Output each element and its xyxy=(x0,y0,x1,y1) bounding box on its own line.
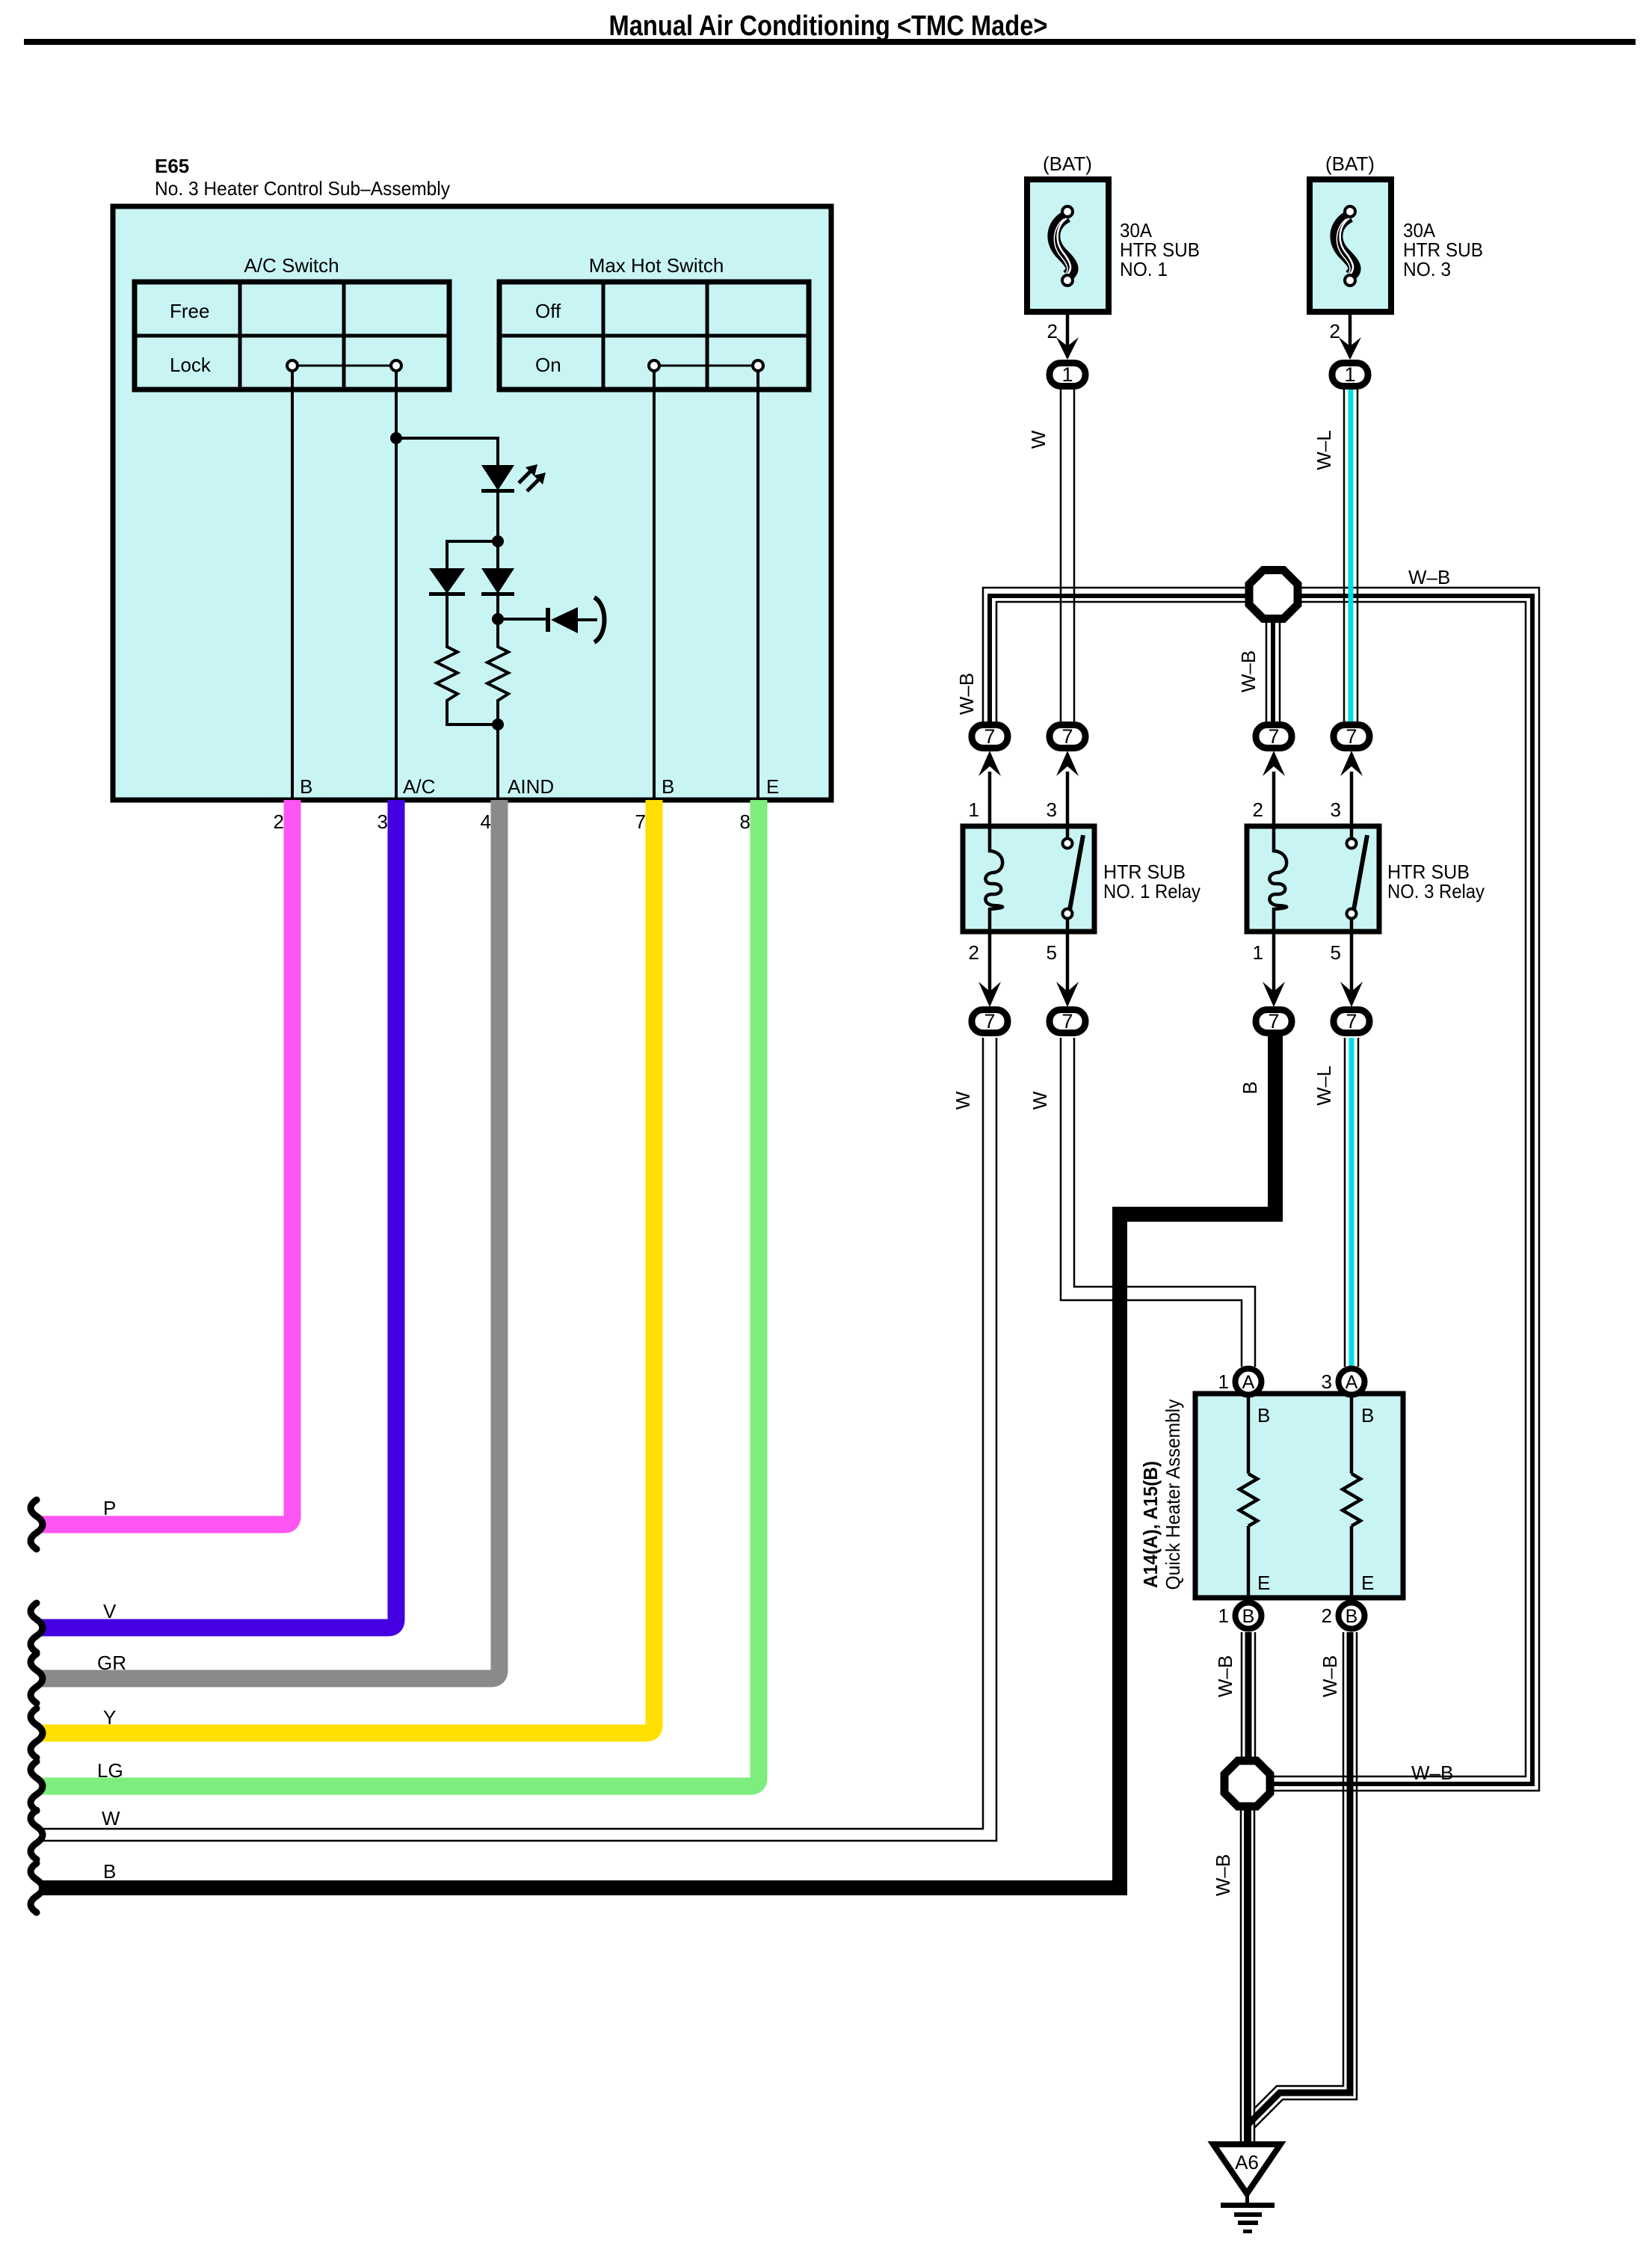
wire W-B heater 2B to ground run xyxy=(1249,1632,1357,2128)
wire Max Hot to pin 7 xyxy=(653,371,656,800)
Max Hot Switch table xyxy=(499,282,809,390)
svg-text:1: 1 xyxy=(1061,363,1073,386)
relay U1 contact xyxy=(1063,826,1084,932)
svg-text:1: 1 xyxy=(1253,941,1263,964)
svg-text:B: B xyxy=(1239,1081,1261,1094)
arrow into connector 1 xyxy=(1339,337,1361,360)
junction dot above resistor xyxy=(492,613,504,625)
svg-text:B: B xyxy=(1257,1404,1270,1427)
wire connector to relay2 pin3 xyxy=(1350,772,1354,826)
fuse HTR SUB NO.3 box xyxy=(1310,179,1391,312)
wire relay2 pin5 to connector xyxy=(1350,932,1354,1002)
ground point A6 xyxy=(1213,2144,1280,2194)
svg-text:E: E xyxy=(1361,1572,1374,1594)
svg-text:A/C: A/C xyxy=(403,775,435,798)
svg-text:W–B: W–B xyxy=(1212,1854,1234,1896)
continuation curl Y xyxy=(31,1708,43,1758)
svg-text:P: P xyxy=(103,1497,116,1519)
wire relay1 pin2 to connector xyxy=(988,932,992,1002)
svg-text:7: 7 xyxy=(1268,725,1279,748)
svg-text:(BAT): (BAT) xyxy=(1325,153,1375,175)
heater pin 1A circle xyxy=(1236,1369,1262,1395)
connector oval 1 (fuse F2) xyxy=(1332,363,1368,387)
branch wire to diode D4 xyxy=(498,618,550,621)
continuation curl V xyxy=(31,1603,43,1652)
resistor R2 xyxy=(487,619,508,800)
svg-text:A6: A6 xyxy=(1235,2151,1259,2173)
wire W-B octagon J2 to ground A6 xyxy=(1241,1810,1254,2144)
svg-text:3: 3 xyxy=(1047,799,1057,821)
heater pin 3A circle xyxy=(1339,1369,1365,1395)
svg-text:No. 3 Heater Control Sub–Assem: No. 3 Heater Control Sub–Assembly xyxy=(155,177,450,200)
svg-text:1: 1 xyxy=(1218,1370,1229,1393)
wire to diode D3 xyxy=(496,541,499,568)
diode D2 xyxy=(429,568,465,596)
connector oval 7 (below relay2 pin1) xyxy=(1256,982,1292,1033)
svg-text:W–L: W–L xyxy=(1313,1065,1335,1105)
net W-B octagon1 to relay2 xyxy=(1266,623,1280,722)
svg-text:7: 7 xyxy=(984,1010,995,1033)
wire Max Hot to pin 8 xyxy=(756,371,759,800)
svg-text:7: 7 xyxy=(1061,1010,1073,1033)
connector oval 7 (below relay1 pin2) xyxy=(972,982,1008,1033)
svg-text:B: B xyxy=(1346,1606,1358,1627)
relay U2 HTR SUB NO.3 box xyxy=(1247,826,1379,932)
wire relay2 pin1 to connector xyxy=(1272,932,1276,1002)
svg-text:5: 5 xyxy=(1331,941,1341,964)
wire W-B heater 1B to octagon xyxy=(1242,1632,1255,1759)
relay U2 coil xyxy=(1269,826,1286,932)
svg-text:2: 2 xyxy=(1330,320,1340,342)
svg-text:W–L: W–L xyxy=(1313,430,1335,470)
wire LG light green xyxy=(39,800,759,1786)
svg-text:3: 3 xyxy=(377,810,388,833)
connector oval 7 (relay1 pin3) xyxy=(1050,725,1085,777)
svg-text:W–B: W–B xyxy=(955,673,978,715)
svg-text:7: 7 xyxy=(1268,1010,1279,1033)
wire D3 to junction xyxy=(496,594,499,619)
svg-text:NO. 3: NO. 3 xyxy=(1403,258,1451,280)
svg-text:2: 2 xyxy=(274,810,284,833)
wire Y yellow xyxy=(39,800,654,1733)
svg-text:1: 1 xyxy=(1218,1604,1229,1627)
junction dot at resistor bottom xyxy=(492,719,504,730)
svg-text:1: 1 xyxy=(969,799,979,821)
svg-text:LG: LG xyxy=(97,1759,123,1782)
svg-text:2: 2 xyxy=(1047,320,1058,342)
svg-text:E65: E65 xyxy=(155,155,189,177)
svg-text:Manual Air Conditioning <TMC M: Manual Air Conditioning <TMC Made> xyxy=(609,10,1048,42)
heater pin 1B circle xyxy=(1236,1603,1262,1629)
svg-text:W–B: W–B xyxy=(1237,650,1260,692)
svg-text:W: W xyxy=(1027,430,1050,449)
svg-text:B: B xyxy=(103,1860,116,1883)
svg-text:NO. 1 Relay: NO. 1 Relay xyxy=(1103,880,1201,902)
svg-text:Y: Y xyxy=(103,1706,116,1729)
E65 No.3 Heater Control Sub-Assembly box xyxy=(113,206,831,800)
wire branch to diode D2 xyxy=(447,541,498,568)
connector oval 7 (relay2 pin3) xyxy=(1334,725,1369,777)
continuation curl P xyxy=(31,1500,43,1549)
svg-text:7: 7 xyxy=(984,725,995,748)
svg-text:A: A xyxy=(1346,1372,1358,1393)
connector oval 1 (fuse F1) xyxy=(1050,363,1085,387)
wire connector to relay1 pin3 xyxy=(1066,772,1070,826)
svg-text:On: On xyxy=(535,354,561,376)
connector oval 7 (relay2 pin2) xyxy=(1256,725,1292,777)
title rule xyxy=(24,39,1636,45)
LED D1 xyxy=(481,464,546,493)
wire relay1 pin5 to connector xyxy=(1066,932,1070,1002)
svg-text:2: 2 xyxy=(969,941,979,964)
svg-text:W–B: W–B xyxy=(1411,1762,1453,1784)
heater element 2 lower wire xyxy=(1350,1526,1354,1600)
wire from A/C lock to pin 2 xyxy=(291,371,294,800)
svg-text:NO. 3 Relay: NO. 3 Relay xyxy=(1387,880,1485,902)
wire connector to relay2 pin2 xyxy=(1272,772,1276,826)
fuse F2 element xyxy=(1337,206,1355,286)
continuation curl W xyxy=(31,1810,43,1859)
svg-text:B: B xyxy=(1361,1404,1374,1427)
svg-text:7: 7 xyxy=(1346,1010,1357,1033)
svg-text:A/C Switch: A/C Switch xyxy=(244,254,339,277)
A/C Switch table xyxy=(135,282,449,390)
junction octagon J1 xyxy=(1249,570,1298,619)
Max Hot switch on contacts xyxy=(649,360,763,371)
wire from A/C lock to pin 3 xyxy=(395,371,398,800)
svg-text:Free: Free xyxy=(170,300,209,322)
wire P pink xyxy=(39,800,292,1524)
connector oval 7 (below relay2 pin5) xyxy=(1334,982,1369,1033)
fuse F1 element xyxy=(1054,206,1073,286)
heater resistor 2 xyxy=(1343,1474,1360,1526)
svg-text:NO. 1: NO. 1 xyxy=(1120,258,1168,280)
svg-text:V: V xyxy=(103,1600,117,1622)
relay U1 coil xyxy=(985,826,1002,932)
svg-text:B: B xyxy=(662,775,674,798)
wire fuse F1 to connector xyxy=(1066,312,1070,357)
svg-text:4: 4 xyxy=(481,810,491,833)
junction dot below LED xyxy=(492,535,504,547)
svg-text:Max Hot Switch: Max Hot Switch xyxy=(589,254,724,277)
wire W from fuse F1 xyxy=(1061,390,1074,722)
svg-text:W–B: W–B xyxy=(1408,566,1450,588)
svg-text:5: 5 xyxy=(1047,941,1057,964)
svg-text:3: 3 xyxy=(1331,799,1341,821)
junction dot on A/C wire xyxy=(390,432,402,444)
svg-text:GR: GR xyxy=(97,1652,126,1674)
wire GR gray xyxy=(39,800,499,1679)
wire fuse F2 to connector xyxy=(1349,312,1352,357)
svg-text:7: 7 xyxy=(1346,725,1357,748)
svg-text:E: E xyxy=(1257,1572,1270,1594)
wire LED to junction xyxy=(496,490,499,541)
wire W-L relay2 pin5 to heater xyxy=(1345,1038,1358,1367)
arrow into connector 1 xyxy=(1056,337,1079,360)
wire W relay1 pin5 to heater xyxy=(1061,1038,1255,1367)
svg-text:W: W xyxy=(952,1091,974,1110)
wire branch to LED xyxy=(396,438,498,465)
quick heater assembly box xyxy=(1195,1394,1403,1598)
svg-text:7: 7 xyxy=(1061,725,1073,748)
junction octagon J2 xyxy=(1224,1761,1270,1806)
net W-B left branch xyxy=(983,588,1245,722)
heater pin 2B circle xyxy=(1339,1603,1365,1629)
svg-text:Off: Off xyxy=(535,300,561,322)
svg-text:2: 2 xyxy=(1253,799,1263,821)
svg-text:2: 2 xyxy=(1322,1604,1332,1627)
wire W-L from fuse F2 xyxy=(1344,390,1357,722)
continuation curl GR xyxy=(31,1654,43,1703)
wire B bottom run xyxy=(39,1035,1275,1888)
svg-text:W: W xyxy=(1029,1091,1051,1110)
ground symbol xyxy=(1221,2191,1275,2233)
svg-text:7: 7 xyxy=(635,810,646,833)
svg-text:8: 8 xyxy=(740,810,751,833)
svg-text:W–B: W–B xyxy=(1319,1655,1341,1697)
fuse HTR SUB NO.1 box xyxy=(1027,179,1109,312)
svg-text:W–B: W–B xyxy=(1214,1655,1236,1697)
wire V violet xyxy=(39,800,396,1628)
svg-text:A: A xyxy=(1242,1372,1255,1393)
svg-text:Lock: Lock xyxy=(170,354,212,376)
heater resistor 1 xyxy=(1239,1474,1257,1526)
relay U2 contact xyxy=(1347,826,1368,932)
wire connector to relay1 pin1 xyxy=(988,772,992,826)
diode D3 xyxy=(481,568,514,596)
wire W bottom run xyxy=(39,1038,996,1841)
svg-text:3: 3 xyxy=(1322,1370,1332,1393)
diode D4 with thermal contact xyxy=(546,597,605,642)
resistor R1 xyxy=(437,596,498,724)
connector oval 7 (relay1 pin1) xyxy=(972,725,1008,777)
svg-text:B: B xyxy=(300,775,312,798)
net W-B right loop xyxy=(1274,588,1539,1791)
svg-text:1: 1 xyxy=(1344,363,1355,386)
A/C switch lock contacts xyxy=(287,360,401,371)
svg-text:B: B xyxy=(1242,1606,1255,1627)
svg-text:A14(A), A15(B): A14(A), A15(B) xyxy=(1139,1461,1162,1588)
svg-text:(BAT): (BAT) xyxy=(1043,153,1092,175)
svg-text:E: E xyxy=(766,775,779,798)
svg-text:Quick Heater Assembly: Quick Heater Assembly xyxy=(1162,1400,1184,1590)
connector oval 7 (below relay1 pin5) xyxy=(1050,982,1085,1033)
continuation curl LG xyxy=(31,1762,43,1811)
continuation curl B xyxy=(31,1863,43,1913)
heater element 2 wire B to E xyxy=(1350,1394,1354,1474)
svg-text:AIND: AIND xyxy=(508,775,554,798)
svg-text:W: W xyxy=(102,1807,120,1830)
relay U1 HTR SUB NO.1 box xyxy=(963,826,1094,932)
heater element 1 wire B to E xyxy=(1247,1394,1251,1474)
heater element 1 lower wire xyxy=(1247,1526,1251,1600)
